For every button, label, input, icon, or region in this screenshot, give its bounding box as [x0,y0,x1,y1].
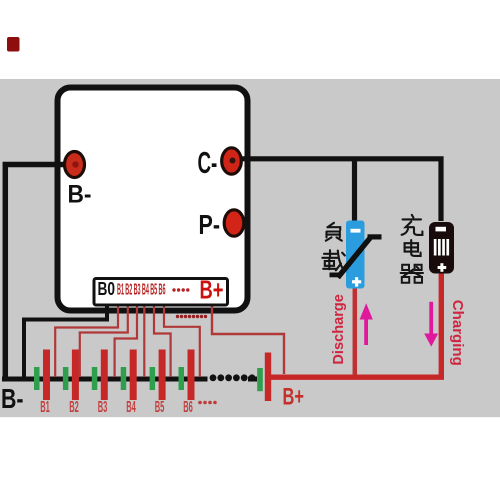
load minus mark [351,229,361,233]
dots below connector [176,315,207,318]
wire B0 to battery negative rail [24,304,107,378]
balance wire B1 [55,304,118,377]
svg-text:B+: B+ [283,384,305,411]
svg-text:B1: B1 [40,399,50,416]
charger plus mark [438,263,447,272]
svg-text:B5: B5 [150,282,157,299]
cell B4 [121,350,137,401]
pad C- [222,148,242,174]
cell B3 [92,350,108,401]
dots after B6 label [198,401,217,405]
cell B1 [34,350,50,401]
wire B- pad to left rail [5,165,74,379]
svg-text:Discharge: Discharge [330,294,347,365]
wire load bottom to positive bus [353,288,358,375]
balance wire B2 [80,304,128,377]
balance wire B5 [154,304,171,377]
charger body [429,222,454,274]
Chinese label 载 (load) [322,250,345,271]
pad B- [65,152,85,178]
dots in connector [172,288,189,291]
wire connector B+ to positive bus [212,304,284,374]
svg-text:B0: B0 [98,279,116,299]
bus segment before terminal [248,377,257,382]
svg-text:B+: B+ [200,275,224,305]
cell B5 [150,350,166,401]
svg-text:C-: C- [198,146,218,180]
svg-text:B2: B2 [125,282,132,299]
ellipsis dots on bus [210,374,256,381]
svg-text:B-: B- [1,383,24,414]
wire branch to load top [352,161,357,221]
balance wire B4 [143,304,145,377]
pad P- [224,210,244,236]
discharge arrow (up) [360,303,373,345]
charger stripes [434,239,449,256]
Chinese label 器 (charger) [401,265,423,283]
switch lever SW1 [330,236,382,277]
background gray band [0,79,500,417]
svg-text:B1: B1 [117,282,124,299]
svg-text:B3: B3 [98,399,108,416]
Chinese label 充 (charger) [402,215,423,235]
Chinese label 电 (charger) [405,240,421,256]
load plus mark [352,277,361,286]
Chinese label 负 (load) [326,223,342,241]
cell B6 [179,350,195,401]
charging arrow (down) [424,302,438,347]
stray red marker top-left [7,37,20,52]
charger minus mark [436,227,447,232]
svg-text:P-: P- [199,209,221,240]
connector strip J1 [94,279,228,306]
svg-text:B4: B4 [142,282,149,299]
balance wire B3 [115,304,137,377]
BMS board outline U1 [58,88,248,311]
load body (blue) [346,221,365,289]
svg-text:B4: B4 [126,399,136,416]
svg-text:B6: B6 [183,399,193,416]
cell B2 [63,350,79,401]
battery negative bus [2,377,208,382]
svg-text:B2: B2 [69,399,79,416]
wire C- pad to charger top [240,159,441,221]
terminal cell electrodes [257,353,271,402]
positive red bus B+ [270,273,441,377]
svg-text:B3: B3 [134,282,141,299]
svg-text:B5: B5 [155,399,165,416]
svg-text:Charging: Charging [449,300,466,366]
svg-text:B6: B6 [159,282,166,299]
svg-text:B-: B- [68,181,92,209]
balance wire B6 [164,304,200,377]
